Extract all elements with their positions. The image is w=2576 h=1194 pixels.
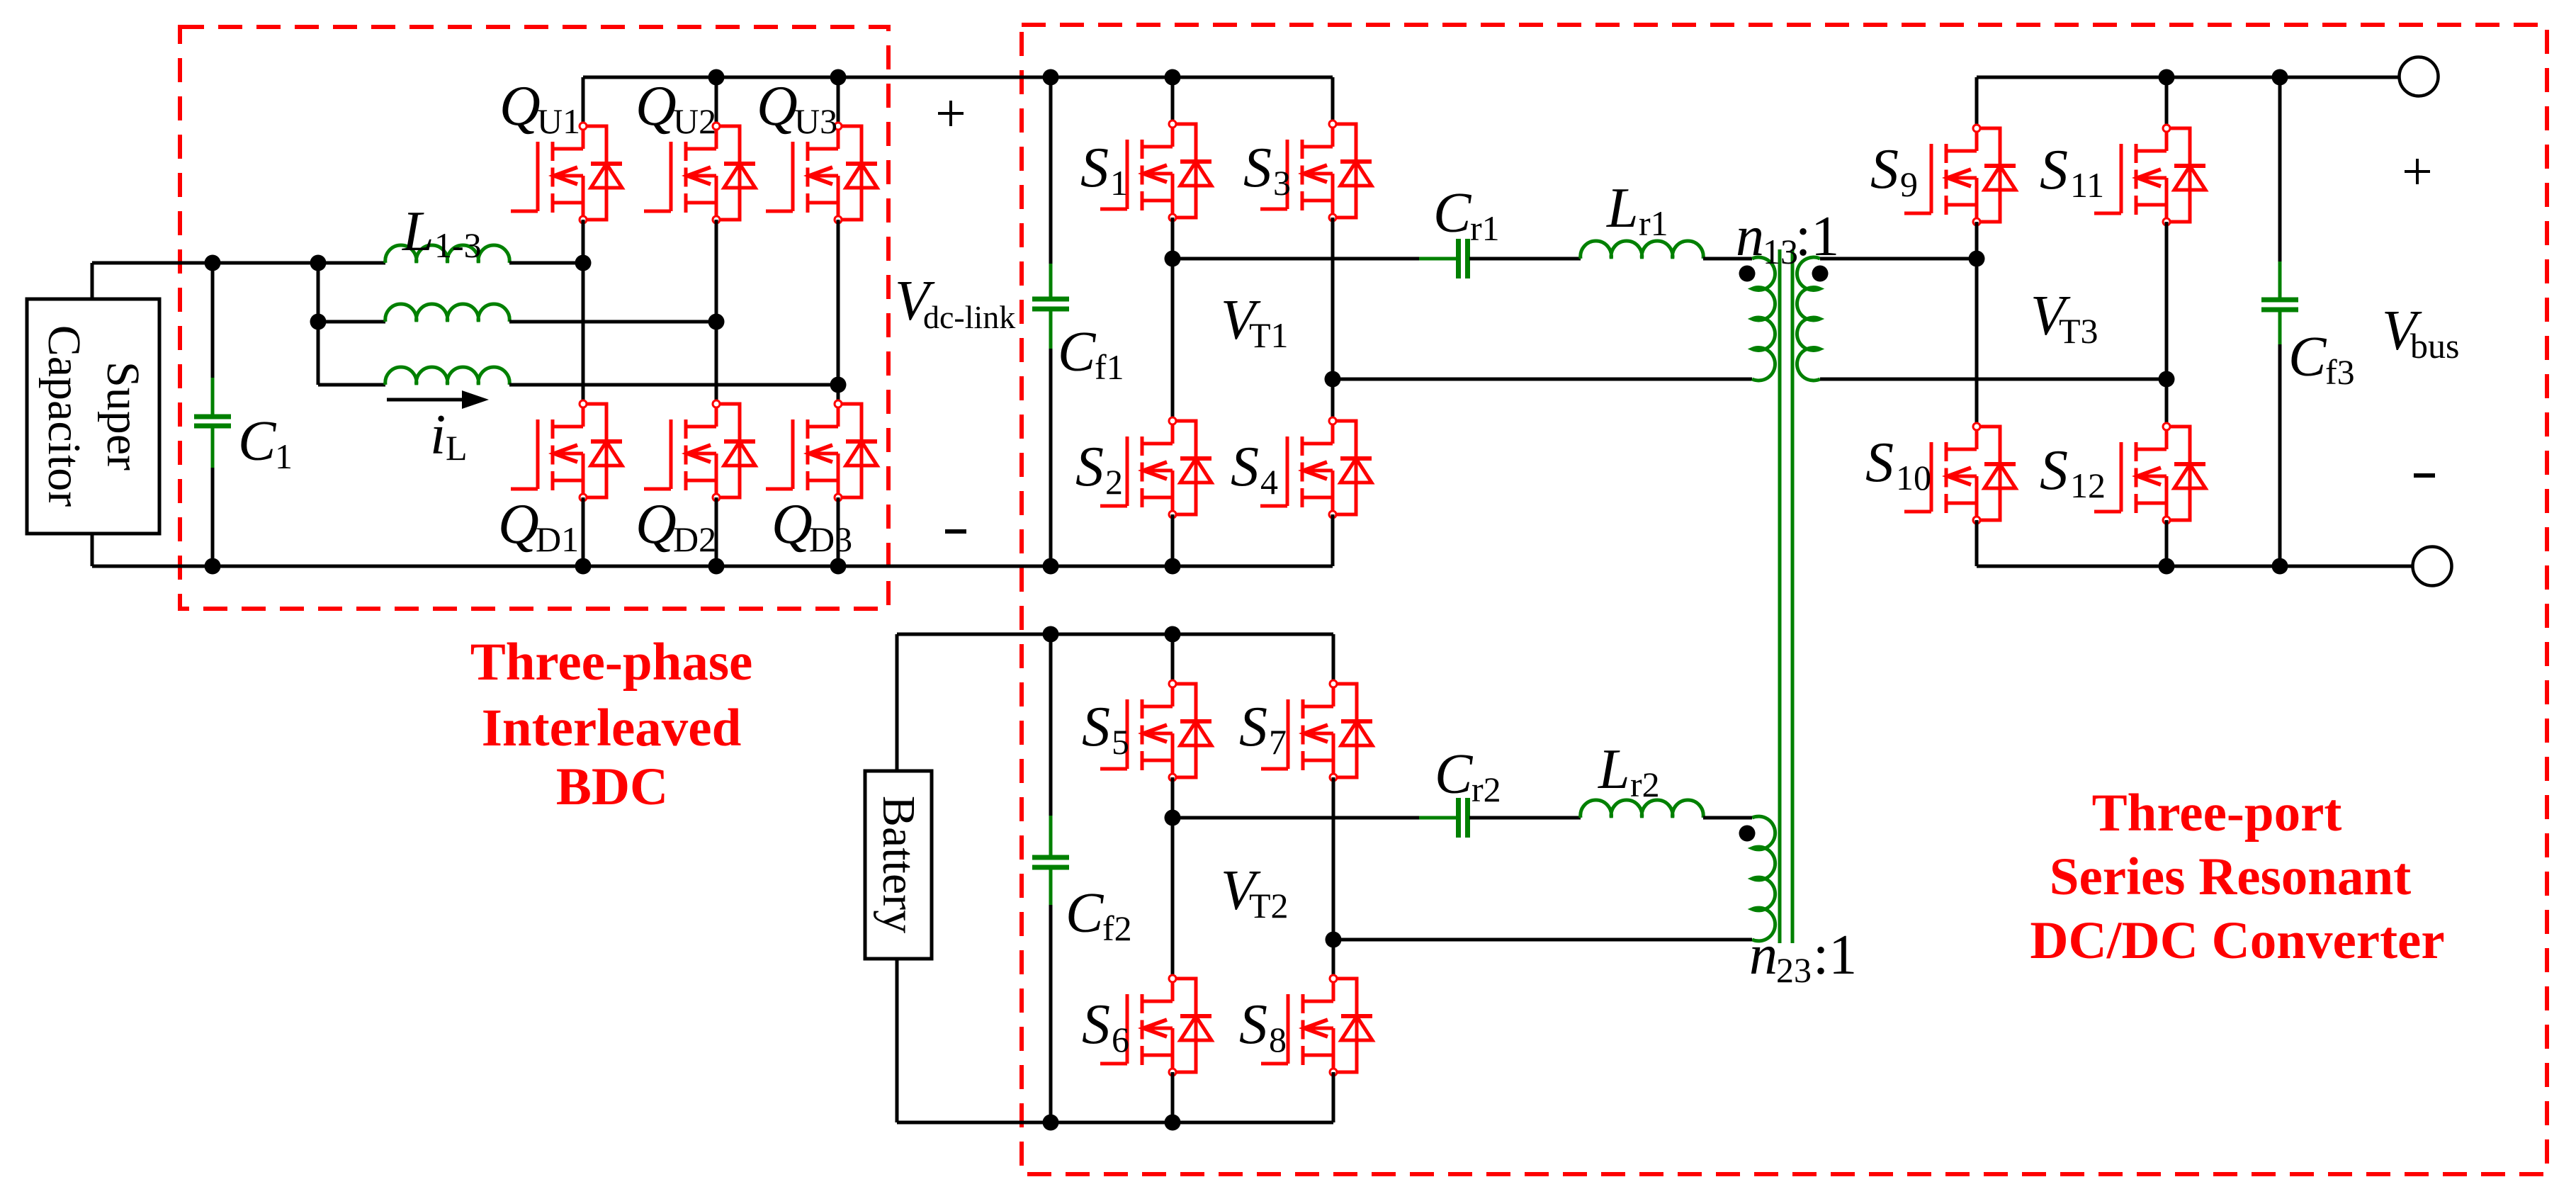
transistor S7 (1261, 680, 1372, 781)
wire QD2 source leg (715, 497, 718, 566)
svg-text:C: C (1435, 743, 1474, 806)
node L1 phase junction (575, 255, 592, 271)
capacitor Cr1 (1419, 257, 1459, 261)
label - Vbus (2414, 473, 2435, 478)
svg-text:Capacitor: Capacitor (38, 325, 90, 507)
wire output top rail (1977, 76, 2400, 79)
Super Capacitor source box (27, 299, 159, 534)
transistor QD1 (511, 400, 622, 501)
svg-text:1: 1 (1110, 163, 1128, 203)
wire S1 drain leg (1171, 77, 1175, 124)
wire S10 drain leg (1975, 259, 1979, 427)
svg-text:n: n (1736, 205, 1764, 268)
transistor S2 (1100, 417, 1211, 518)
node L2 phase junction (708, 314, 725, 330)
node C bridge2 midpoint (1165, 810, 1181, 826)
svg-text:S: S (2040, 439, 2068, 502)
wire QU2 source to inductor node (715, 220, 718, 322)
svg-text:C: C (1058, 321, 1097, 383)
transistor S9 (1904, 125, 2016, 225)
wire phase leg 1 mid (582, 263, 585, 404)
wire S6 drain leg (1171, 818, 1175, 979)
svg-text:8: 8 (1269, 1020, 1287, 1059)
wire S2 drain leg (1171, 259, 1175, 421)
wire S1 source to node A (1171, 218, 1175, 259)
wire secondary top to S9 leg (1820, 257, 1977, 261)
node Cf3 top junction (2272, 69, 2288, 86)
wire phase leg 2 mid (715, 322, 718, 404)
svg-text:Super: Super (97, 361, 149, 471)
node QU3 drain junction (830, 69, 847, 86)
transformer primary winding 2 (n23) (1752, 816, 1775, 941)
svg-text:C: C (2288, 326, 2327, 388)
wire S8 source leg (1332, 1072, 1335, 1122)
svg-text:L: L (1598, 738, 1630, 801)
svg-text:5: 5 (1112, 722, 1129, 762)
wire S9 drain leg (1975, 77, 1979, 128)
svg-text:dc-link: dc-link (923, 299, 1015, 335)
transistor QD3 (766, 400, 877, 501)
transistor S6 (1100, 975, 1211, 1076)
wire supercap top lead (91, 263, 94, 299)
svg-text:1: 1 (275, 437, 293, 476)
svg-text:Q: Q (635, 493, 677, 556)
wire output bottom rail (1977, 565, 2413, 568)
wire battery top rail (897, 633, 1333, 636)
svg-text:Q: Q (635, 75, 677, 137)
wire Lr1 to transformer primary1 (1703, 257, 1752, 261)
wire top-left rail to inductors (92, 261, 385, 265)
wire S11-S12 leg (2165, 222, 2169, 427)
wire node C to Cr2 (1173, 816, 1457, 820)
svg-text:U1: U1 (537, 101, 580, 141)
arrow iL current direction (387, 398, 468, 402)
svg-text:9: 9 (1900, 164, 1918, 204)
wire S2 source leg (1171, 514, 1175, 566)
node QD1 source junction (575, 558, 592, 575)
wire L1 to Q1 leg (509, 261, 583, 265)
svg-text:U2: U2 (673, 101, 716, 141)
node QD3 source junction (830, 558, 847, 575)
svg-text:6: 6 (1112, 1020, 1129, 1059)
svg-text:13: 13 (1763, 232, 1798, 271)
svg-text::1: :1 (1813, 924, 1857, 986)
svg-text:Q: Q (499, 75, 541, 137)
svg-text:Q: Q (757, 75, 798, 137)
svg-text:S: S (2040, 139, 2068, 201)
label + Vbus (2405, 159, 2430, 184)
capacitor Cf2 (1049, 634, 1053, 816)
wire QU3 source to inductor node (837, 220, 840, 385)
wire S4 source leg (1331, 514, 1335, 566)
svg-text:Interleaved: Interleaved (482, 699, 742, 757)
node Cf1 bottom junction (1043, 558, 1059, 575)
capacitor Cr2 (1419, 816, 1459, 820)
svg-text:S: S (1082, 993, 1110, 1056)
wire QU3 drain leg (837, 77, 840, 126)
transistor S5 (1100, 680, 1211, 781)
Battery source box (865, 771, 932, 959)
transistor QU1 (511, 123, 622, 223)
svg-text:r2: r2 (1471, 770, 1501, 809)
svg-text:D2: D2 (673, 519, 716, 559)
dashed boundary box: Three-phase Interleaved BDC (180, 27, 888, 609)
node L3 phase junction (830, 377, 847, 393)
wire QU1 drain leg (582, 77, 585, 126)
wire S3-S4 leg (1331, 218, 1335, 421)
node QU2 drain junction (708, 69, 725, 86)
node Cf3 bottom junction (2272, 558, 2288, 575)
svg-text:f2: f2 (1102, 908, 1132, 948)
transistor S10 (1904, 423, 2016, 524)
node Cf1 top junction (1043, 69, 1059, 86)
output terminal + (2400, 57, 2439, 96)
svg-text:12: 12 (2070, 466, 2106, 505)
svg-text:r1: r1 (1470, 208, 1500, 248)
node Cf2 bottom junction (1043, 1115, 1059, 1131)
wire QD3 source leg (837, 497, 840, 566)
wire S5 source to node C (1171, 777, 1175, 818)
wire S12 source leg (2165, 520, 2169, 566)
label + dc-link (938, 101, 964, 126)
inductor L2 (318, 320, 385, 324)
svg-text:f1: f1 (1095, 347, 1124, 387)
transistor QD2 (644, 400, 755, 501)
wire Lr2 to transformer primary2 (1703, 816, 1752, 820)
wire battery top lead (896, 634, 899, 771)
svg-text:L: L (446, 428, 468, 468)
node S1 top junction (1165, 69, 1181, 86)
svg-text:Q: Q (772, 493, 813, 556)
wire battery bottom rail (897, 1121, 1333, 1125)
svg-text:1-3: 1-3 (434, 225, 482, 265)
svg-text:BDC: BDC (556, 757, 668, 816)
svg-text:C: C (1433, 182, 1472, 244)
transformer secondary winding (1797, 257, 1820, 381)
transistor S11 (2094, 125, 2205, 225)
svg-text:T3: T3 (2059, 311, 2098, 351)
svg-text:T2: T2 (1249, 886, 1289, 925)
svg-text:3: 3 (1273, 163, 1291, 203)
transistor QU3 (766, 123, 877, 223)
capacitor Cf1 (1049, 77, 1053, 264)
svg-text:Three-phase: Three-phase (470, 633, 753, 692)
node Cf2 top junction (1043, 626, 1059, 643)
svg-text:r1: r1 (1639, 203, 1668, 243)
node F bridge3 midpoint (2159, 371, 2175, 388)
node D bridge2 midpoint (1326, 932, 1342, 948)
svg-text:bus: bus (2410, 326, 2459, 366)
node QD2 source junction (708, 558, 725, 575)
node C1 top junction (205, 255, 221, 271)
svg-text:S: S (1082, 696, 1110, 758)
node S2 bottom junction (1165, 558, 1181, 575)
svg-text:i: i (430, 404, 446, 466)
transformer core (1778, 249, 1782, 943)
svg-text:S: S (1075, 436, 1104, 498)
wire S5 drain leg (1171, 634, 1175, 684)
inductor L3 (318, 383, 385, 387)
svg-text:S: S (1239, 696, 1267, 758)
inductor Lr1 (1581, 241, 1703, 259)
polarity dot primary2 (1739, 826, 1756, 842)
wire QU2 drain leg (715, 77, 718, 126)
svg-text:S: S (1231, 436, 1259, 498)
node S12 bottom junction (2159, 558, 2175, 575)
svg-text:S: S (1080, 137, 1109, 199)
node B bridge1 midpoint (1325, 371, 1341, 388)
transistor S8 (1261, 975, 1372, 1076)
polarity dot secondary (1812, 266, 1829, 282)
wire S6 source leg (1171, 1072, 1175, 1122)
capacitor Cf3 (2278, 77, 2282, 261)
wire S11 drain leg (2165, 77, 2169, 128)
svg-text:C: C (238, 410, 277, 473)
svg-text:r2: r2 (1630, 765, 1660, 804)
svg-text:Battery: Battery (873, 796, 925, 933)
label - dc-link (945, 529, 966, 534)
svg-text:T1: T1 (1249, 315, 1289, 355)
transistor S4 (1260, 417, 1372, 518)
wire top rail BDC to S-bridge (583, 76, 1333, 79)
svg-text:DC/DC Converter: DC/DC Converter (2030, 911, 2444, 970)
transformer primary winding 1 (n13) (1752, 257, 1775, 381)
svg-text:C: C (1066, 882, 1105, 945)
wire S7 drain leg (1332, 634, 1335, 684)
node A bridge1 midpoint (1165, 251, 1181, 267)
node S6 bottom junction (1165, 1115, 1181, 1131)
wire inductor-bank left vertical (317, 263, 320, 385)
wire QD1 source leg (582, 497, 585, 566)
svg-text:U3: U3 (794, 101, 837, 141)
wire S3 drain leg (1331, 77, 1335, 124)
transistor S1 (1100, 120, 1211, 221)
wire bottom rail supercap to S-bridge (92, 565, 1333, 568)
wire S10 source leg (1975, 520, 1979, 566)
svg-text:Three-port: Three-port (2092, 784, 2342, 843)
capacitor C1 (211, 263, 215, 378)
wire secondary bottom to S11 leg (1820, 378, 2167, 381)
dashed boundary box: Three-port Series Resonant DC/DC Converter (1022, 25, 2547, 1174)
node inductor bank left junction middle (310, 314, 327, 330)
svg-text:n: n (1749, 924, 1778, 986)
wire Cr2 to Lr2 (1469, 816, 1581, 820)
svg-text:7: 7 (1269, 722, 1287, 762)
svg-text:S: S (1865, 432, 1894, 494)
wire S7-S8 leg (1332, 777, 1335, 979)
transistor QU2 (644, 123, 755, 223)
wire QU1 source to inductor node (582, 220, 585, 263)
wire transformer primary2 bottom to node D (1333, 938, 1752, 942)
svg-text:D3: D3 (809, 519, 852, 559)
svg-text:S: S (1239, 993, 1267, 1056)
node inductor bank left junction top (310, 255, 327, 271)
svg-text:4: 4 (1260, 462, 1278, 502)
node S11 top junction (2159, 69, 2175, 86)
svg-text:Series Resonant: Series Resonant (2050, 847, 2411, 906)
wire battery bottom lead (896, 959, 899, 1122)
wire L3 to Q3 leg (509, 383, 838, 387)
wire supercap bottom lead (91, 534, 94, 566)
node C1 bottom junction (205, 558, 221, 575)
wire L2 to Q2 leg (509, 320, 716, 324)
wire node B to transformer primary1 bottom (1333, 378, 1752, 381)
node E bridge3 midpoint (1969, 251, 1985, 267)
svg-text:11: 11 (2070, 165, 2104, 205)
svg-text:S: S (1243, 137, 1272, 199)
wire Cr1 to Lr1 (1469, 257, 1581, 261)
inductor Lr2 (1581, 800, 1703, 818)
svg-text:23: 23 (1776, 950, 1812, 990)
transistor S3 (1260, 120, 1372, 221)
wire S9 source to node E (1975, 222, 1979, 259)
inductor L1 (385, 245, 509, 263)
svg-text:f3: f3 (2325, 352, 2355, 392)
svg-text:L: L (1606, 177, 1639, 240)
svg-text:L: L (402, 201, 434, 263)
transistor S12 (2094, 423, 2205, 524)
node S5 top junction (1165, 626, 1181, 643)
wire phase leg 3 mid (837, 385, 840, 404)
svg-text:Q: Q (498, 493, 539, 556)
svg-text:D1: D1 (536, 519, 579, 559)
output terminal - (2413, 547, 2452, 586)
wire node A to Cr1 (1173, 257, 1457, 261)
svg-text:S: S (1870, 138, 1899, 201)
svg-text:10: 10 (1896, 458, 1931, 497)
polarity dot primary1 (1739, 266, 1756, 282)
svg-text:2: 2 (1105, 462, 1123, 502)
